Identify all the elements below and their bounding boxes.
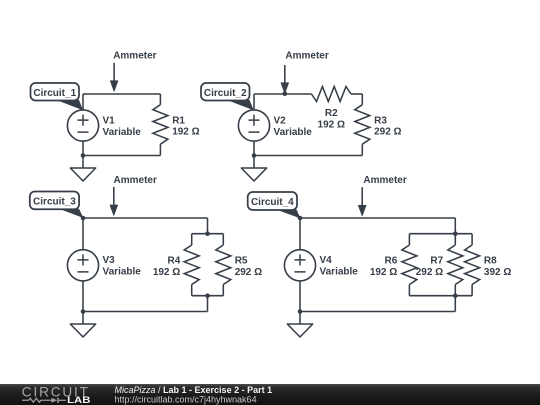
node c4 top-left junction — [298, 216, 303, 221]
node c2 ground junction — [252, 153, 257, 158]
svg-text:Variable: Variable — [274, 127, 313, 138]
node c1 ground junction — [81, 153, 86, 158]
wire — [299, 312, 301, 325]
svg-text:Ammeter: Ammeter — [113, 51, 156, 62]
wire c2 top left — [254, 93, 312, 95]
voltage source V3 — [67, 250, 98, 281]
wire V1 top stub — [82, 94, 84, 110]
svg-text:MicaPizza / Lab 1 - Exercise 2: MicaPizza / Lab 1 - Exercise 2 - Part 1 — [115, 385, 273, 395]
svg-text:Circuit_2: Circuit_2 — [204, 88, 247, 99]
resistor R1 — [153, 105, 168, 145]
svg-text:R2: R2 — [325, 108, 338, 119]
wire V3 bottom stub — [82, 281, 84, 312]
wire c3 bus top — [192, 233, 224, 235]
node c3 bus top junction — [205, 231, 210, 236]
svg-text:292 Ω: 292 Ω — [235, 267, 262, 278]
svg-text:Circuit_1: Circuit_1 — [33, 88, 76, 99]
wire c4 bus top — [409, 233, 472, 235]
wire c2 right lower lead — [361, 144, 363, 155]
wire c4 bus bottom — [409, 295, 472, 297]
wire V4 top stub — [299, 218, 301, 250]
wire V2 bottom stub — [253, 141, 255, 155]
wire c4 bottom — [300, 311, 455, 313]
node flag label Circuit_4 — [248, 192, 301, 218]
wire c3 feed lower — [207, 296, 209, 312]
wire V2 top stub — [253, 94, 255, 110]
label R8 value — [484, 255, 511, 278]
node c3 bus bottom junction — [205, 293, 210, 298]
node flag label Circuit_1 — [31, 83, 84, 110]
svg-text:392 Ω: 392 Ω — [484, 267, 511, 278]
wire V3 top stub — [82, 218, 84, 250]
wire c4 feed upper — [454, 218, 456, 234]
svg-text:192 Ω: 192 Ω — [172, 127, 199, 138]
svg-text:Ammeter: Ammeter — [114, 175, 157, 186]
wire c2 right upper lead — [361, 94, 363, 105]
svg-text:V4: V4 — [320, 255, 333, 266]
wire c1 bottom — [83, 155, 160, 157]
ground — [70, 324, 95, 337]
wire c3 bus bottom — [192, 295, 224, 297]
resistor R2 — [312, 87, 352, 102]
wire c4 feed lower — [454, 296, 456, 312]
label R2 value — [318, 108, 345, 130]
label R3 value — [374, 115, 401, 137]
node c4 ground junction — [298, 309, 303, 314]
logo resistor squiggle — [22, 398, 52, 402]
voltage source V2 — [238, 110, 269, 141]
label R4 value — [153, 255, 181, 278]
svg-text:292 Ω: 292 Ω — [416, 267, 443, 278]
svg-text:R4: R4 — [168, 255, 181, 266]
svg-text:LAB: LAB — [67, 395, 90, 405]
svg-text:Variable: Variable — [103, 127, 142, 138]
svg-text:R6: R6 — [385, 255, 398, 266]
ammeter probe arrow — [110, 187, 118, 216]
label R1 value — [172, 115, 199, 137]
resistor R5 — [216, 234, 231, 296]
node c3 ground junction — [81, 309, 86, 314]
svg-text:292 Ω: 292 Ω — [374, 127, 401, 138]
svg-text:192 Ω: 192 Ω — [370, 267, 397, 278]
ammeter probe arrow — [110, 63, 118, 91]
resistor R3 — [355, 105, 370, 145]
wire — [82, 156, 84, 169]
wire — [82, 312, 84, 325]
node flag label Circuit_3 — [30, 192, 84, 219]
svg-text:R1: R1 — [172, 115, 185, 126]
node c4 bus bottom junction — [453, 293, 458, 298]
voltage source V4 — [284, 250, 315, 281]
svg-text:V3: V3 — [103, 255, 116, 266]
svg-text:R5: R5 — [235, 255, 248, 266]
wire c2 top right — [351, 93, 362, 95]
ammeter probe arrow — [358, 187, 366, 216]
wire c2 bottom — [254, 155, 362, 157]
svg-text:Circuit_4: Circuit_4 — [251, 197, 294, 208]
label V1 value — [103, 115, 142, 138]
wire c1 top — [83, 93, 160, 95]
label V4 value — [320, 255, 359, 278]
ammeter probe arrow — [281, 65, 289, 96]
wire — [253, 156, 255, 169]
wire c3 feed upper — [207, 218, 209, 234]
ground — [241, 168, 266, 181]
svg-text:192 Ω: 192 Ω — [153, 267, 180, 278]
wire c1 right upper lead — [159, 94, 161, 105]
svg-text:Variable: Variable — [320, 267, 359, 278]
wire c1 right lower lead — [159, 144, 161, 155]
resistor R6 — [402, 234, 417, 296]
logo diode symbol — [52, 398, 66, 403]
wire c3 bottom — [83, 311, 208, 313]
resistor R8 — [465, 234, 480, 296]
voltage source V1 — [67, 110, 98, 141]
svg-text:Ammeter: Ammeter — [363, 175, 406, 186]
wire V4 bottom stub — [299, 281, 301, 312]
ground — [287, 324, 312, 337]
wire c4 top — [300, 217, 455, 219]
svg-text:Ammeter: Ammeter — [285, 51, 328, 62]
resistor R4 — [184, 234, 199, 296]
svg-text:V2: V2 — [274, 115, 287, 126]
svg-text:R7: R7 — [430, 255, 443, 266]
node c4 bus top junction — [453, 231, 458, 236]
svg-text:Circuit_3: Circuit_3 — [33, 197, 76, 208]
svg-text:V1: V1 — [103, 115, 116, 126]
ground — [70, 168, 95, 181]
node c3 top-left junction — [81, 216, 86, 221]
label R7 value — [416, 255, 444, 278]
node flag label Circuit_2 — [201, 83, 254, 110]
footer bar — [0, 384, 540, 405]
wire c3 top — [83, 217, 208, 219]
CircuitLab logo wordmark — [22, 383, 91, 405]
svg-text:http://circuitlab.com/c7j4hyhw: http://circuitlab.com/c7j4hyhwnak64 — [115, 394, 257, 404]
label V3 value — [103, 255, 142, 278]
svg-text:192 Ω: 192 Ω — [318, 120, 345, 131]
wire V1 bottom stub — [82, 141, 84, 155]
label R6 value — [370, 255, 398, 278]
label V2 value — [274, 115, 313, 138]
label R5 value — [235, 255, 262, 278]
svg-text:R8: R8 — [484, 255, 497, 266]
resistor R7 — [448, 234, 463, 296]
svg-text:R3: R3 — [374, 115, 387, 126]
svg-text:Variable: Variable — [103, 267, 142, 278]
